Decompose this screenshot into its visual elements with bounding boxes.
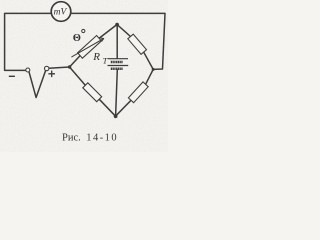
svg-text:mV: mV (54, 8, 68, 18)
svg-text:14-10: 14-10 (86, 133, 118, 144)
svg-text:Θ: Θ (73, 33, 81, 44)
svg-text:R: R (92, 51, 100, 63)
svg-text:Рис.: Рис. (62, 133, 81, 144)
